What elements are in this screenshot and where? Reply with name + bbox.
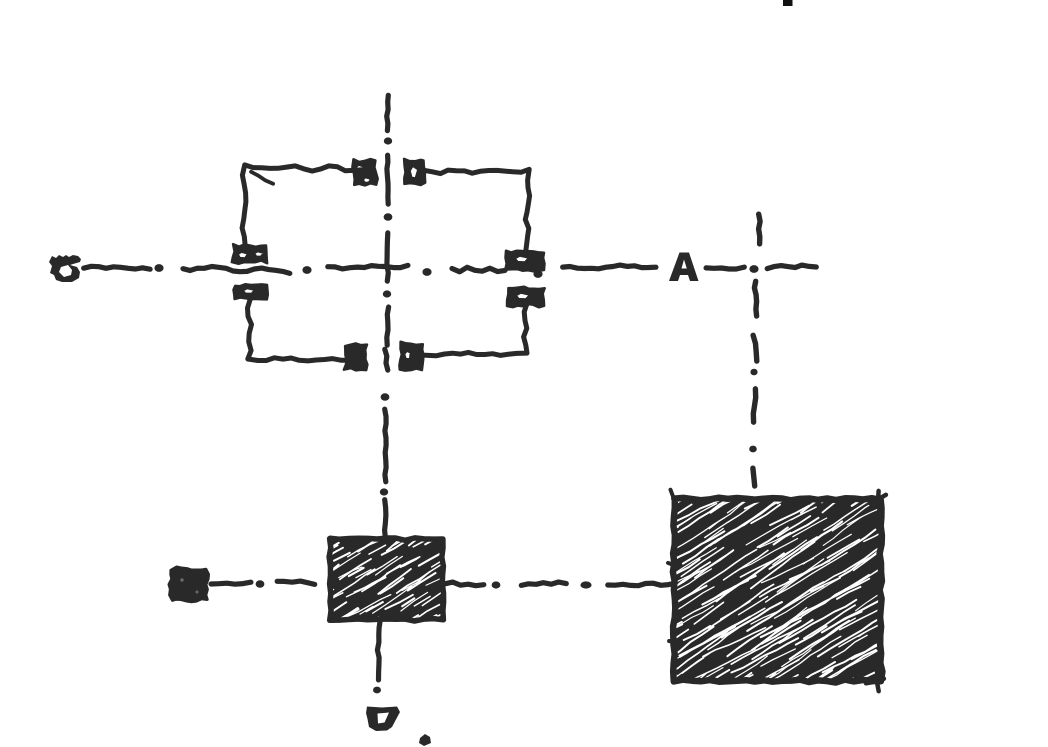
contact blob left of center top xyxy=(352,159,377,185)
label D xyxy=(366,707,400,732)
pad lower-left xyxy=(234,284,268,299)
centerline vertical A-axis xyxy=(759,214,761,244)
contact blob left of center bottom xyxy=(344,343,368,370)
wire bottom-right loop xyxy=(412,304,527,355)
stray mark bottom xyxy=(419,734,431,746)
wire top-right loop xyxy=(424,169,529,251)
wire top-left loop xyxy=(242,165,362,245)
contact blob right of center top xyxy=(404,159,425,185)
wire bottom-left loop xyxy=(248,299,350,361)
mark top edge xyxy=(783,0,793,6)
centerline horizontal through dies xyxy=(211,582,251,584)
centerline horizontal B-A axis xyxy=(84,266,150,269)
label A xyxy=(669,253,699,282)
label B xyxy=(49,255,81,282)
pad upper-left xyxy=(232,244,267,264)
pad lower-right xyxy=(507,287,545,308)
pad upper-right xyxy=(505,251,544,272)
corner tick top-left xyxy=(251,172,273,184)
solid contact square left xyxy=(169,567,209,602)
centerline vertical D-axis xyxy=(387,95,389,130)
contact blob right of center bottom xyxy=(399,342,423,371)
